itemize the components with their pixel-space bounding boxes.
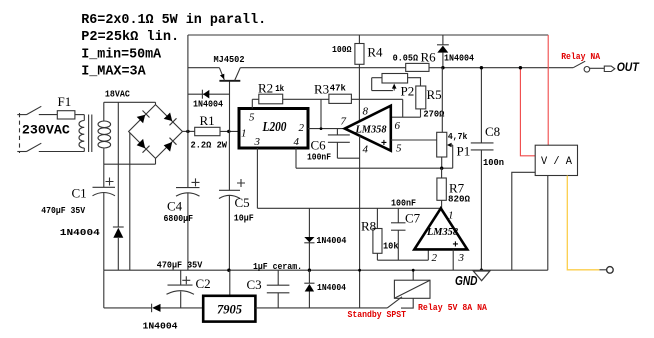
svg-text:R7: R7 xyxy=(449,181,465,196)
junction dot left of R1 xyxy=(186,130,189,133)
svg-text:0.05Ω: 0.05Ω xyxy=(393,54,419,64)
wire L200 pin3 drop xyxy=(256,148,258,208)
transformer T1 secondary winding xyxy=(103,102,105,164)
svg-text:4: 4 xyxy=(363,143,369,155)
resistor R8 xyxy=(373,229,382,254)
fuse F1 xyxy=(57,111,75,119)
resistor R7 xyxy=(437,178,446,200)
wire 7905 top lead xyxy=(229,270,231,296)
svg-text:7: 7 xyxy=(341,116,347,128)
svg-text:C1: C1 xyxy=(72,186,87,201)
black stub to output terminal xyxy=(600,269,607,271)
svg-text:6800µF: 6800µF xyxy=(164,214,194,224)
svg-text:R4: R4 xyxy=(367,45,383,60)
svg-text:1: 1 xyxy=(241,127,247,139)
bridge top corner stub xyxy=(155,102,157,104)
wire P1 bottom lead xyxy=(441,157,443,168)
diode 1N4004 (bottom left, points left) xyxy=(152,304,161,313)
svg-text:2.2Ω 2W: 2.2Ω 2W xyxy=(191,140,228,150)
svg-text:R6: R6 xyxy=(421,50,437,65)
wire P2 wiper bracket xyxy=(371,78,373,91)
mains stub bottom xyxy=(17,151,26,153)
wire fuse to primary xyxy=(75,114,84,116)
wire secondary bottom to bridge xyxy=(104,163,156,165)
wire bridge plus to R1 xyxy=(182,130,194,132)
relay coil K1 xyxy=(394,280,430,298)
wire R7 bottom lead to op-amp2 output xyxy=(441,200,443,208)
wire R2 to R3 xyxy=(283,98,329,100)
svg-text:GND: GND xyxy=(455,273,478,288)
svg-text:1N4004: 1N4004 xyxy=(143,321,179,331)
svg-text:3: 3 xyxy=(458,252,465,264)
svg-text:100nF: 100nF xyxy=(307,153,331,163)
svg-text:100n: 100n xyxy=(483,158,504,168)
resistor R6 (0.05 ohm) xyxy=(406,63,429,71)
svg-text:47k: 47k xyxy=(330,84,347,94)
wire P2 right lead to R5 xyxy=(408,78,421,86)
standby switch blade xyxy=(387,297,402,308)
wire contact to OUT plug xyxy=(590,67,605,69)
svg-text:1N4004: 1N4004 xyxy=(444,54,475,64)
junction dot C8 top xyxy=(480,66,483,69)
capacitor C7 xyxy=(391,208,406,260)
wire base diode branch xyxy=(188,93,230,95)
bridge rectifier diamond xyxy=(129,105,183,159)
capacitor C3 xyxy=(267,270,290,308)
svg-text:C7: C7 xyxy=(405,211,421,226)
svg-text:100Ω: 100Ω xyxy=(332,45,352,55)
capacitor C6 xyxy=(328,129,360,159)
wire R5 bottom lead xyxy=(420,109,422,117)
wire R8 bottom lead xyxy=(376,253,378,260)
capacitor C8 xyxy=(471,68,494,271)
diode 1N4004 on x=118 xyxy=(113,227,124,238)
wire R4 top lead xyxy=(358,35,360,44)
junction dot diode/output rail xyxy=(441,66,444,69)
ground symbol GND xyxy=(473,271,490,281)
svg-text:LM358: LM358 xyxy=(355,124,387,136)
svg-text:2: 2 xyxy=(299,122,305,134)
wire relay coil top lead xyxy=(412,270,414,280)
svg-text:1N4004: 1N4004 xyxy=(60,228,101,238)
svg-text:C8: C8 xyxy=(485,124,500,139)
op-amp U2A LM358 (left-pointing) xyxy=(345,106,391,151)
wire V/A left lead xyxy=(512,172,535,270)
wire L200 pin5 riser xyxy=(251,99,253,108)
junction dot red tap on output rail xyxy=(519,66,522,69)
wire R1 to L200 pin1 xyxy=(220,130,239,132)
svg-text:R5: R5 xyxy=(427,87,442,102)
svg-text:+: + xyxy=(381,138,387,149)
resistor R1 xyxy=(195,127,220,135)
resistor R2 xyxy=(259,94,283,104)
wire R7 top lead xyxy=(441,168,443,178)
regulator 7905 xyxy=(203,296,255,322)
capacitor C1 xyxy=(93,164,116,270)
wire R8 top lead xyxy=(376,208,378,228)
resistor R5 xyxy=(416,86,426,109)
svg-text:I_min=50mA: I_min=50mA xyxy=(81,46,162,62)
output terminal circle (yellow wire) xyxy=(607,267,614,274)
transformer core xyxy=(88,115,90,153)
mains plug dashed line xyxy=(19,113,21,153)
wire switch to fuse F1 xyxy=(39,114,58,116)
svg-text:LM358: LM358 xyxy=(426,226,458,238)
wire V/A bottom black lead xyxy=(547,176,549,271)
svg-text:230VAC: 230VAC xyxy=(22,123,70,138)
svg-text:1N4004: 1N4004 xyxy=(317,283,347,293)
regulator U1 L200 xyxy=(239,109,308,149)
svg-text:1N4004: 1N4004 xyxy=(193,100,224,110)
bridge diode bottom-left xyxy=(137,139,150,153)
svg-text:F1: F1 xyxy=(58,94,72,109)
diode 1N4004 (x=309.4 vertical) xyxy=(304,270,314,308)
wire x=309.4 drop to mid rail xyxy=(308,208,310,270)
junction dot C8 bottom / GND rail xyxy=(480,269,483,272)
wire ground reference line y=208.3 xyxy=(257,207,440,209)
potentiometer P2 xyxy=(382,74,408,84)
bottom rail 7905 to standby switch xyxy=(255,307,387,309)
wire pin5 to R2 xyxy=(252,98,258,100)
wire AC1 vertical x=118 xyxy=(117,102,119,226)
switch blade top xyxy=(27,106,42,114)
wire L200 pin2 to op-amp output xyxy=(308,128,345,130)
wire switch bottom to primary xyxy=(39,151,85,153)
wire top rail y=35 xyxy=(188,34,548,36)
svg-text:Relay NA: Relay NA xyxy=(561,52,601,62)
wire op-amp pin5 to P1 xyxy=(391,139,437,141)
svg-text:Relay 5V 8A NA: Relay 5V 8A NA xyxy=(418,303,488,313)
svg-text:P1: P1 xyxy=(457,144,471,159)
wire P1 wiper drop xyxy=(452,145,454,168)
wire left vertical x=188 (emitter rail riser) xyxy=(187,35,189,131)
svg-text:C3: C3 xyxy=(247,277,262,292)
wire op-amp2 pin3 drop xyxy=(452,249,454,270)
bridge diode bottom-right xyxy=(164,138,177,152)
svg-text:1N4004: 1N4004 xyxy=(316,236,347,246)
bottom negative rail y=307.9 xyxy=(104,307,152,309)
wire inverting input line y=260.2 xyxy=(377,259,428,261)
P1 wiper arrow xyxy=(447,143,453,148)
wire collector rail xyxy=(240,67,405,69)
wire secondary top to bridge xyxy=(104,101,156,103)
junction dot C5/7905 on mid rail xyxy=(227,269,230,272)
red wire output sense to V/A xyxy=(520,68,535,156)
junction dot x=360 on mid rail xyxy=(358,269,361,272)
svg-text:P2=25kΩ lin.: P2=25kΩ lin. xyxy=(81,29,179,45)
junction dot P1 bottom xyxy=(440,167,443,170)
svg-text:4: 4 xyxy=(294,136,300,148)
capacitor C5 xyxy=(219,131,245,270)
svg-text:470µF 35V: 470µF 35V xyxy=(41,206,86,216)
wire bridge minus corner down x=129.8 xyxy=(129,133,131,271)
capacitor C2 xyxy=(167,270,195,308)
svg-text:1k: 1k xyxy=(275,84,284,94)
svg-text:C5: C5 xyxy=(235,195,250,210)
svg-text:3: 3 xyxy=(254,136,261,148)
svg-text:R3: R3 xyxy=(314,82,329,97)
meter V/A box xyxy=(535,145,577,175)
wire R6 right to output node xyxy=(429,67,573,69)
capacitor C4 xyxy=(176,131,200,270)
svg-text:OUT: OUT xyxy=(617,60,640,74)
P2 wiper arrow xyxy=(392,84,397,91)
wire reference line y=168.2 xyxy=(296,167,453,169)
wire L200 pin4 drop xyxy=(295,148,297,168)
red wire top rail to V/A xyxy=(547,35,549,145)
svg-text:MJ4502: MJ4502 xyxy=(214,55,245,65)
mid ground rail y=270.2 xyxy=(104,269,548,271)
svg-text:L200: L200 xyxy=(262,120,287,135)
OUT plug symbol xyxy=(604,66,615,71)
svg-text:1µF ceram.: 1µF ceram. xyxy=(253,262,302,272)
wire C1 leg down to bottom rail xyxy=(103,270,105,308)
wire relay coil bottom lead xyxy=(401,298,413,308)
wire R3 right to divider corner xyxy=(351,98,402,100)
svg-text:10µF: 10µF xyxy=(234,213,254,223)
svg-text:8: 8 xyxy=(363,106,369,118)
svg-text:6: 6 xyxy=(395,120,401,132)
svg-text:470µF 35V: 470µF 35V xyxy=(157,260,203,270)
svg-text:I_MAX=3A: I_MAX=3A xyxy=(81,63,146,79)
wire R2R3 tap down x=321 xyxy=(320,99,322,128)
switch blade bottom xyxy=(27,143,42,151)
transformer T1 primary winding xyxy=(79,115,84,152)
svg-text:5: 5 xyxy=(249,111,255,123)
wire P2 left lead xyxy=(372,77,382,79)
svg-text:Standby SPST: Standby SPST xyxy=(348,310,407,320)
mains stub top xyxy=(17,114,26,116)
svg-text:V / A: V / A xyxy=(541,156,572,168)
wire pin6 node y=117 xyxy=(391,116,421,118)
transistor MJ4502 xyxy=(219,68,240,132)
wire output node down to P1 top xyxy=(441,68,443,133)
svg-text:820Ω: 820Ω xyxy=(448,195,471,205)
svg-text:R6=2x0.1Ω 5W in parall.: R6=2x0.1Ω 5W in parall. xyxy=(81,12,266,28)
bridge diode top-left xyxy=(137,111,150,124)
svg-text:18VAC: 18VAC xyxy=(105,89,131,99)
wire R4 bottom / op-amp pin8 supply xyxy=(358,64,360,121)
svg-text:C2: C2 xyxy=(196,276,211,291)
junction dot x=321 on pin2 wire xyxy=(320,127,323,130)
svg-text:2: 2 xyxy=(432,252,438,264)
relay NA contact blade xyxy=(573,61,585,67)
svg-text:4,7k: 4,7k xyxy=(448,132,468,142)
resistor R3 xyxy=(329,94,352,103)
potentiometer P1 xyxy=(437,132,447,157)
relay NA contact circle xyxy=(584,67,590,73)
bottom rail diode to 7905 xyxy=(161,307,204,309)
svg-text:C4: C4 xyxy=(167,199,183,214)
diode 1N4004 (x=309.4 upper, points down) xyxy=(304,237,314,243)
junction dot x=309.4 on mid rail xyxy=(308,269,311,272)
svg-text:R2: R2 xyxy=(258,81,273,96)
yellow wire V/A to output terminal xyxy=(567,176,599,270)
svg-text:7905: 7905 xyxy=(217,301,242,316)
junction dot relay top xyxy=(412,269,415,272)
junction dot right of R1 xyxy=(227,130,230,133)
svg-text:R8: R8 xyxy=(361,219,376,234)
bridge diode top-right xyxy=(164,113,177,126)
svg-text:C6: C6 xyxy=(311,138,327,153)
svg-text:270Ω: 270Ω xyxy=(423,110,445,120)
bridge bottom corner stub xyxy=(155,158,157,164)
wire emitter branch xyxy=(188,67,220,69)
resistor R4 xyxy=(355,44,364,65)
svg-text:1: 1 xyxy=(448,210,454,222)
svg-text:5: 5 xyxy=(396,142,402,154)
svg-text:100nF: 100nF xyxy=(391,199,416,209)
diode 1N4004 (base clamp, points left) xyxy=(202,90,209,99)
svg-text:10k: 10k xyxy=(383,241,399,251)
diode 1N4004 (output clamp, vertical) xyxy=(437,35,449,68)
wire divider drop x=402.7 xyxy=(402,99,404,117)
op-amp U2B LM358 (up-pointing) xyxy=(414,208,467,249)
svg-text:R1: R1 xyxy=(200,113,215,128)
wire op-amp pin4 drop xyxy=(359,136,361,308)
svg-text:P2: P2 xyxy=(401,84,415,99)
svg-text:+: + xyxy=(453,240,459,251)
wire op-amp2 pin2 riser xyxy=(427,249,429,260)
